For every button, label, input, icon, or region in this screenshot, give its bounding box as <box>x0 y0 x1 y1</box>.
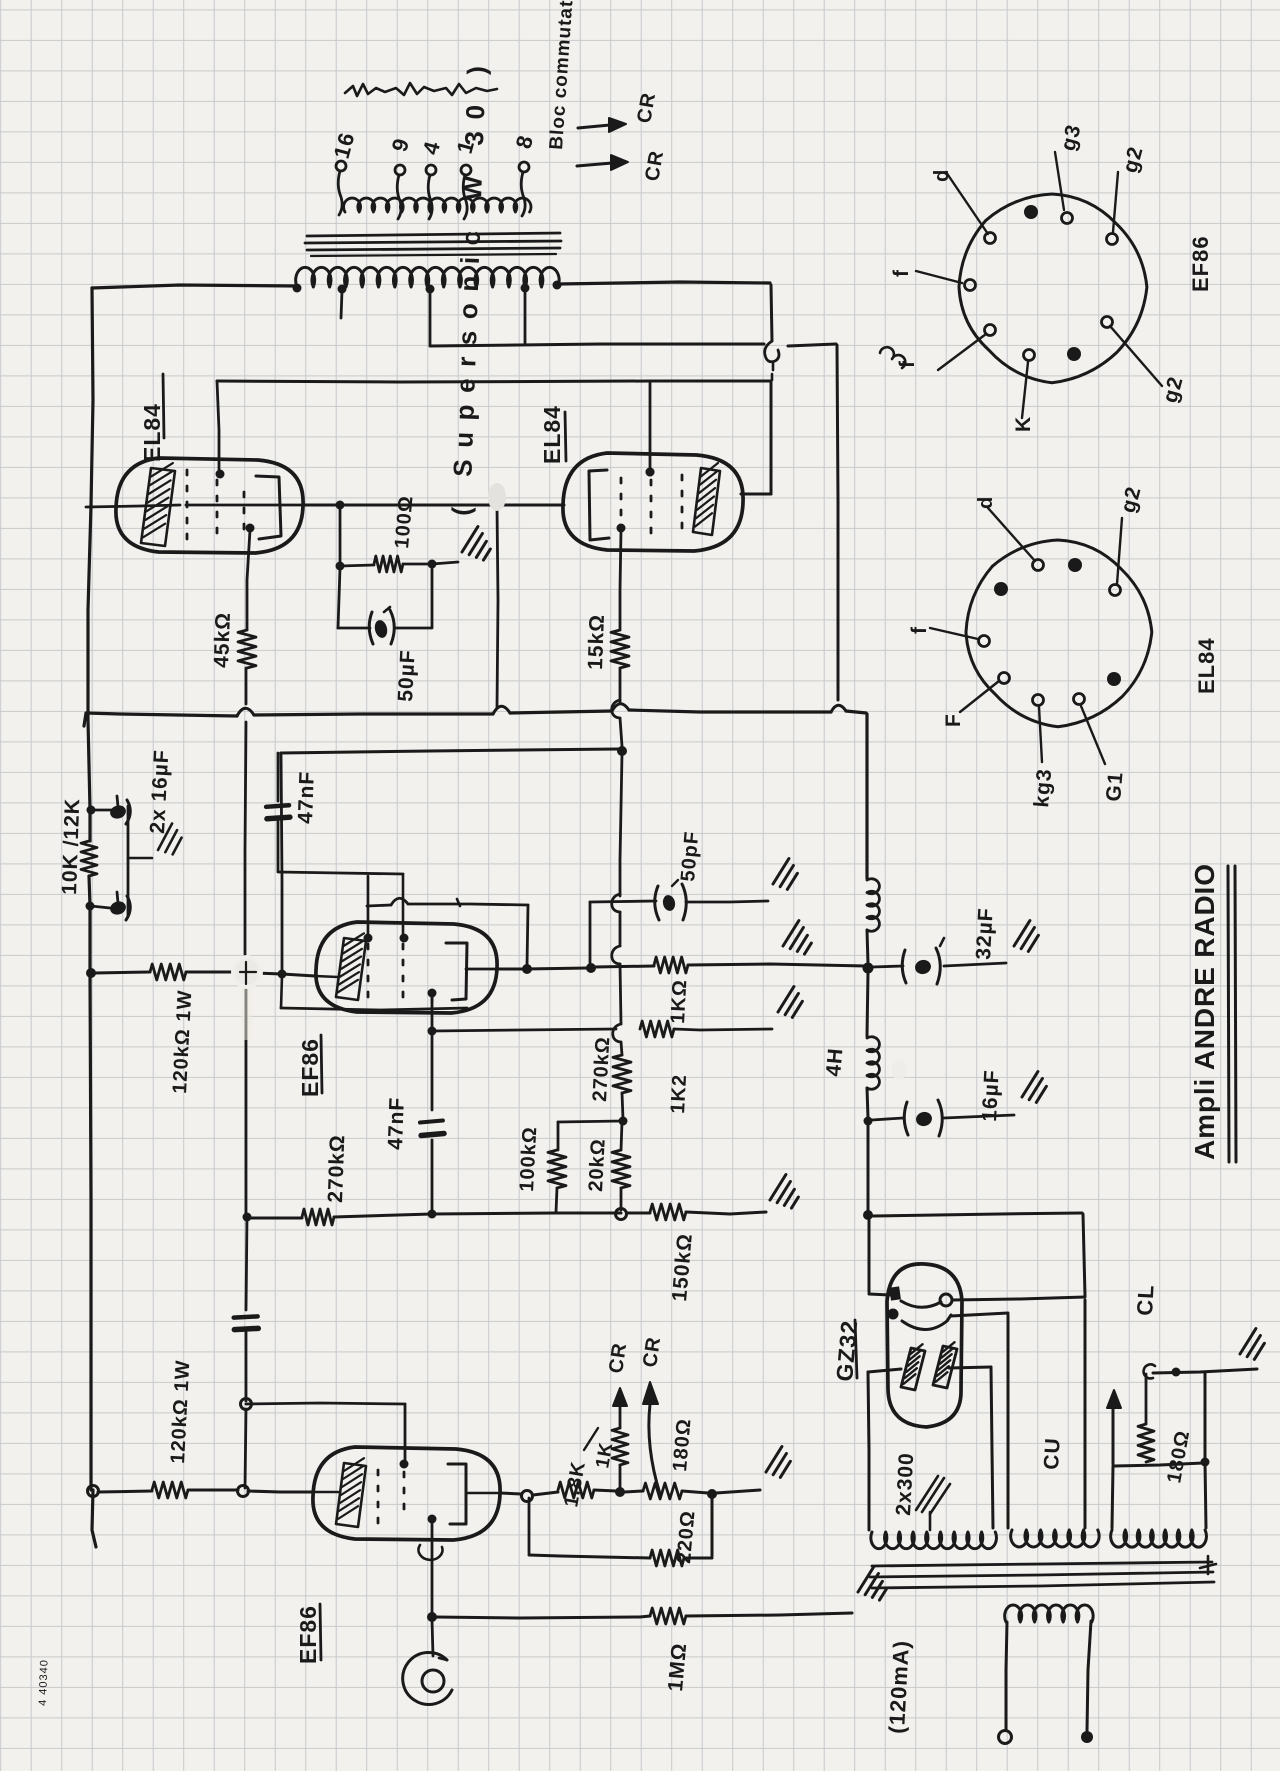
svg-text:EL84: EL84 <box>139 403 165 462</box>
svg-text:2x300: 2x300 <box>892 1452 918 1517</box>
svg-text:CU: CU <box>1040 1437 1065 1471</box>
svg-text:32µF: 32µF <box>972 907 998 960</box>
svg-text:270kΩ: 270kΩ <box>589 1036 614 1103</box>
svg-text:d: d <box>931 169 953 182</box>
svg-text:45kΩ: 45kΩ <box>210 612 235 669</box>
svg-text:100Ω: 100Ω <box>391 494 418 549</box>
svg-text:4 40340: 4 40340 <box>37 1659 51 1706</box>
svg-text:EL84: EL84 <box>539 405 565 464</box>
svg-text:1K: 1K <box>592 1440 617 1470</box>
svg-text:4H: 4H <box>822 1047 847 1078</box>
svg-text:47nF: 47nF <box>384 1096 409 1150</box>
svg-text:f: f <box>890 269 913 277</box>
svg-text:20kΩ: 20kΩ <box>585 1138 610 1192</box>
svg-text:1K2: 1K2 <box>667 1073 691 1114</box>
svg-text:f: f <box>908 626 931 634</box>
svg-text:Ampli ANDRE RADIO: Ampli ANDRE RADIO <box>1189 862 1220 1160</box>
svg-text:G1: G1 <box>1102 771 1128 803</box>
svg-text:EF86: EF86 <box>295 1605 321 1664</box>
svg-text:50µF: 50µF <box>394 649 420 702</box>
svg-text:15kΩ: 15kΩ <box>584 614 609 671</box>
svg-text:EF86: EF86 <box>1188 235 1213 292</box>
svg-text:1MΩ: 1MΩ <box>664 1642 691 1693</box>
svg-text:EF86: EF86 <box>297 1038 323 1097</box>
svg-text:270kΩ: 270kΩ <box>324 1134 349 1203</box>
svg-text:(120mA): (120mA) <box>884 1639 914 1734</box>
svg-text:50pF: 50pF <box>677 830 703 882</box>
svg-text:10K /12K: 10K /12K <box>58 798 84 895</box>
svg-text:EL84: EL84 <box>1194 637 1219 694</box>
svg-text:47nF: 47nF <box>294 770 319 824</box>
svg-text:220Ω: 220Ω <box>673 1509 700 1564</box>
svg-text:K: K <box>1012 416 1035 432</box>
svg-text:CR: CR <box>605 1341 631 1375</box>
svg-text:1KΩ: 1KΩ <box>667 979 691 1025</box>
svg-text:2x 16µF: 2x 16µF <box>146 749 173 835</box>
svg-text:F: F <box>942 713 965 727</box>
svg-text:CR: CR <box>639 1335 665 1369</box>
svg-text:100kΩ: 100kΩ <box>516 1126 541 1193</box>
svg-text:f: f <box>896 360 919 368</box>
svg-text:kg3: kg3 <box>1030 767 1056 808</box>
svg-text:180Ω: 180Ω <box>669 1417 696 1472</box>
svg-text:CL: CL <box>1132 1284 1159 1317</box>
svg-text:16µF: 16µF <box>978 1069 1004 1122</box>
svg-text:d: d <box>975 496 997 509</box>
